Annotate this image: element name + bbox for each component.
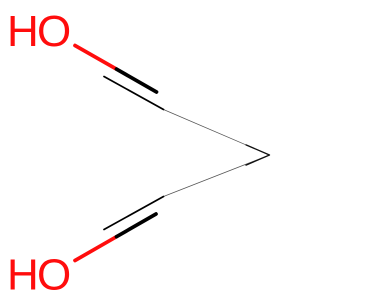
bond O2-C2 red half [75, 237, 117, 261]
double bond inner line bottom (O2=C2) [104, 197, 164, 230]
apex chevron (node C3 junction) [246, 145, 270, 165]
bond C1-C3 thin line (to apex node C3) [164, 110, 270, 197]
bond O2-C2 black half [117, 214, 157, 237]
label halo O1 [10, 9, 70, 52]
svg-text:HO: HO [7, 7, 70, 56]
svg-text:HO: HO [7, 251, 70, 300]
bond O1-C1 red half [75, 46, 117, 70]
double bond inner line top (O1=C1) [104, 77, 164, 110]
bond O1-C1 black half [117, 69, 157, 92]
label halo O2 [10, 254, 70, 297]
